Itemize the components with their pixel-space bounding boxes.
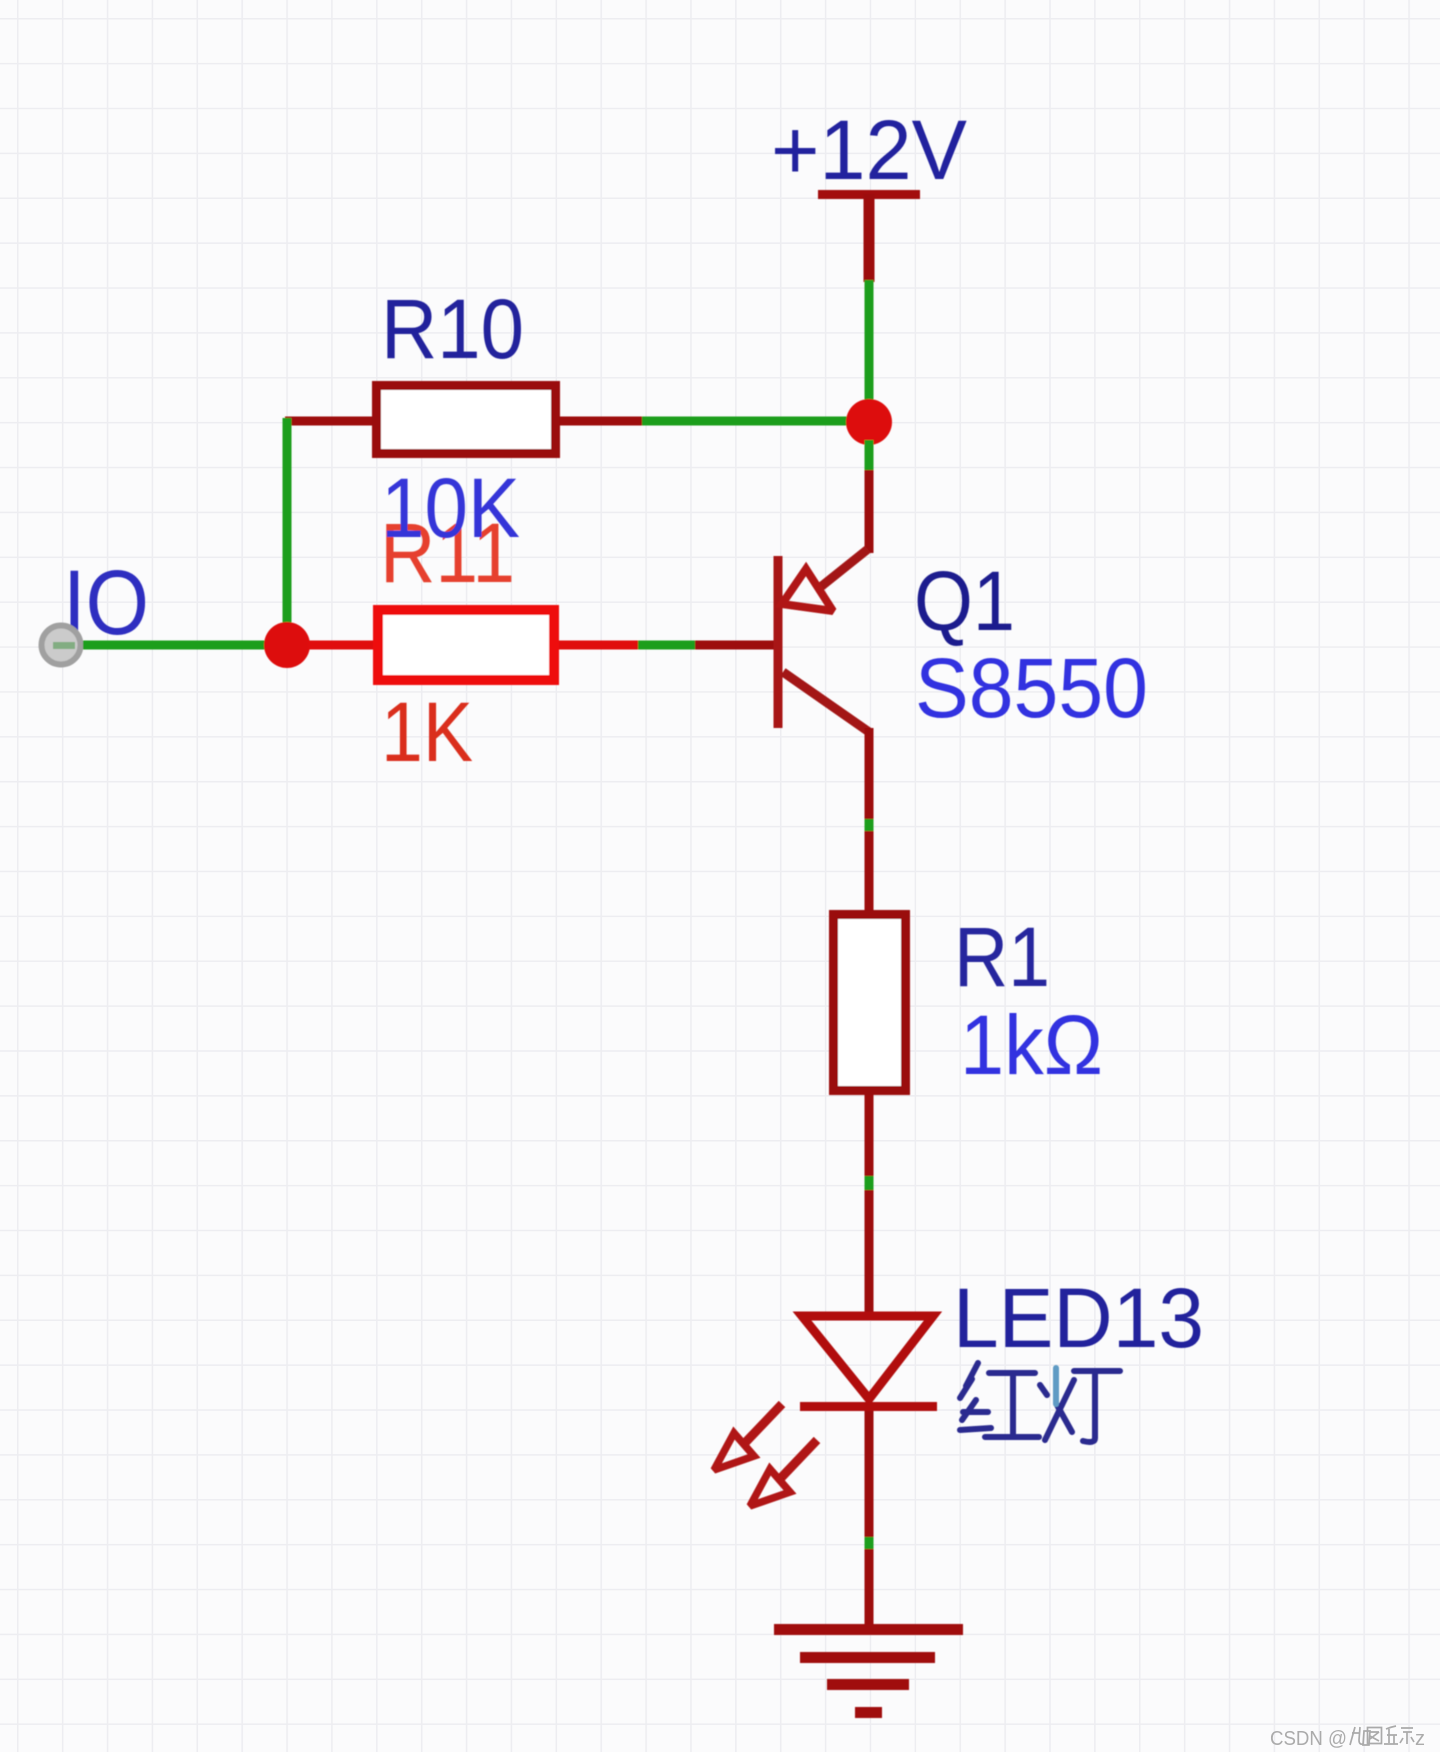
emitter diagonal xyxy=(818,549,868,589)
hanzi hong: si radical xyxy=(960,1363,991,1430)
emitter wire green segment xyxy=(865,440,874,472)
svg-text:R1: R1 xyxy=(954,910,1050,1004)
transistor Q1 xyxy=(774,440,874,732)
ground symbol xyxy=(774,1624,963,1718)
resistor R10 xyxy=(377,386,556,454)
wire dark to gnd xyxy=(865,1549,874,1626)
wire dark red R10 right xyxy=(560,417,642,426)
svg-text:LED13: LED13 xyxy=(953,1271,1204,1365)
svg-text:CSDN @: CSDN @ xyxy=(1270,1728,1347,1750)
wire collector down dark xyxy=(865,728,874,819)
resistor R1 xyxy=(834,915,906,1091)
power bar symbol xyxy=(818,190,920,199)
LED13 cathode bar xyxy=(800,1402,937,1411)
resistor R11 xyxy=(378,610,554,680)
svg-text:10K: 10K xyxy=(381,461,520,555)
junction node IO xyxy=(264,622,310,668)
pin IO xyxy=(42,626,81,665)
wire dark to R1 xyxy=(865,831,874,912)
svg-text:R10: R10 xyxy=(381,282,524,376)
hanzi deng: ding part xyxy=(1074,1371,1120,1442)
junction node +12V xyxy=(846,399,892,445)
svg-text:+12V: +12V xyxy=(771,103,967,197)
wire red R11 right xyxy=(559,641,638,650)
watermark xyxy=(1270,1726,1425,1750)
power stub wire xyxy=(864,194,875,282)
wire green vertical +12V to node xyxy=(865,280,874,422)
label red-light (hand drawn CJK) xyxy=(960,1363,1120,1442)
svg-text:S8550: S8550 xyxy=(915,641,1148,735)
wire green dash LED-gnd xyxy=(865,1537,874,1549)
emitter wire dark segment xyxy=(865,470,874,553)
hanzi deng: huo radical xyxy=(1040,1380,1074,1440)
LED13 triangle xyxy=(802,1316,933,1399)
wire green base xyxy=(638,641,695,650)
collector diagonal xyxy=(783,672,869,732)
wire green dash collector xyxy=(865,819,874,831)
emitter arrowhead xyxy=(782,569,833,611)
wire red node to R11 xyxy=(308,641,373,650)
wire green IO to node xyxy=(83,641,287,650)
svg-text:z: z xyxy=(1415,1728,1425,1750)
wire LED to ground xyxy=(865,1411,874,1537)
svg-text:1K: 1K xyxy=(381,685,473,779)
hanzi hong: gong part xyxy=(985,1373,1039,1437)
wire green vertical left branch xyxy=(283,418,292,647)
wire green horizontal R10 to node xyxy=(640,417,869,426)
svg-text:1kΩ: 1kΩ xyxy=(960,998,1103,1092)
base bar xyxy=(774,556,783,728)
wire dark red to base xyxy=(695,641,775,650)
wire green dash R1-LED xyxy=(865,1176,874,1190)
wire R1 to LED dark xyxy=(865,1095,874,1176)
wire dark to LED xyxy=(865,1190,874,1320)
LED emission arrow 2 xyxy=(750,1440,817,1506)
LED emission arrow 1 xyxy=(714,1404,782,1470)
wire dark red R10 left xyxy=(285,417,373,426)
svg-text:Q1: Q1 xyxy=(914,554,1015,648)
wire green dash inside pin xyxy=(53,642,75,649)
